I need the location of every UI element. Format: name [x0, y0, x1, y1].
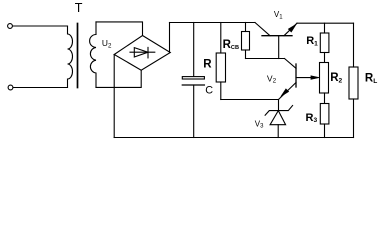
zener V3 anode lead	[277, 125, 279, 138]
transistor V2 emitter	[279, 83, 297, 100]
capacitor C top plate (hollow)	[182, 77, 204, 79]
bridge rectifier diode symbol	[130, 51, 155, 53]
resistor R2 body (potentiometer)	[320, 63, 329, 94]
capacitor C top lead	[193, 23, 195, 77]
resistor Rcb top lead	[245, 23, 247, 32]
svg-text:R2: R2	[330, 72, 342, 84]
transformer T secondary winding	[90, 22, 96, 88]
resistor Rcb body	[242, 32, 250, 51]
resistor RL bottom lead	[353, 99, 355, 138]
svg-text:R1: R1	[306, 35, 318, 47]
R2 wiper arrow	[311, 76, 319, 80]
transistor V2 base bar	[295, 64, 297, 87]
zener V3 cathode bar with wings	[265, 106, 293, 116]
resistor R bottom lead	[220, 82, 222, 100]
wire: R bottom to zener node	[221, 99, 279, 101]
svg-text:RL: RL	[365, 73, 377, 85]
input terminal bottom	[8, 85, 13, 90]
svg-text:V2: V2	[267, 73, 277, 84]
wire: secondary top to bridge AC1	[96, 22, 143, 36]
resistor R2 bottom lead	[324, 93, 326, 104]
zener V3 cathode lead	[278, 100, 280, 111]
resistor R top lead	[220, 23, 222, 54]
transistor V1 base lead	[278, 36, 280, 59]
resistor R1 body	[320, 33, 329, 53]
resistor R body	[216, 53, 225, 82]
resistor R3 body	[320, 104, 329, 125]
transformer T core	[77, 24, 79, 88]
svg-text:V1: V1	[274, 10, 283, 20]
svg-text:RCB: RCB	[223, 39, 239, 51]
transistor V1 collector	[255, 23, 270, 36]
wire: top input to primary	[13, 25, 68, 27]
zener V3 triangle	[270, 111, 286, 125]
svg-text:R3: R3	[306, 112, 318, 124]
resistor R1 top lead	[324, 23, 326, 33]
svg-text:C: C	[205, 85, 213, 97]
capacitor C bottom plate	[182, 84, 204, 86]
svg-text:R: R	[203, 59, 212, 71]
svg-text:T: T	[75, 1, 83, 15]
transformer T primary winding	[68, 26, 73, 88]
wire: Rcb bottom / V1 base / V2 collector node	[246, 58, 285, 60]
bridge rectifier diamond	[114, 36, 170, 71]
resistor R1 bottom lead	[324, 53, 326, 63]
wire: output rail	[297, 22, 354, 24]
wire: bridge positive (right vertex) up to top rail	[169, 23, 171, 53]
transistor V1 emitter	[284, 23, 297, 36]
transistor V1 emitter arrow	[288, 24, 296, 32]
svg-text:U2: U2	[102, 38, 112, 49]
wire: bottom input to primary	[13, 87, 67, 89]
input terminal top	[8, 24, 13, 29]
wire: bridge negative (left vertex) down to bottom rail	[113, 55, 115, 138]
transistor V2 emitter arrow	[281, 89, 289, 97]
transistor V1 base bar	[262, 35, 292, 37]
resistor RL top lead	[353, 23, 355, 67]
resistor R3 bottom lead	[324, 124, 326, 138]
wire: V2 base to R2 wiper	[296, 77, 313, 79]
wire: bottom rail	[114, 137, 353, 139]
resistor Rcb bottom lead	[245, 50, 247, 59]
wire: top unregulated rail	[170, 22, 256, 24]
capacitor C bottom lead	[193, 85, 195, 138]
transistor V2 collector	[285, 59, 297, 69]
wire: secondary bottom to bridge AC2	[96, 70, 141, 87]
svg-text:V3: V3	[255, 119, 264, 129]
resistor RL body	[349, 67, 358, 99]
